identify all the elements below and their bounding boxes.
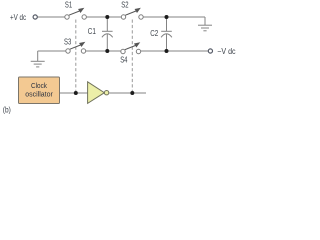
svg-text:+V dc: +V dc (10, 14, 27, 22)
svg-text:S4: S4 (120, 57, 127, 65)
svg-text:−V dc: −V dc (217, 46, 236, 55)
svg-text:C2: C2 (150, 30, 158, 38)
svg-text:S1: S1 (65, 2, 72, 10)
svg-text:oscillator: oscillator (25, 89, 53, 98)
svg-text:(b): (b) (3, 105, 11, 115)
svg-text:S3: S3 (64, 39, 71, 47)
svg-text:S2: S2 (121, 2, 128, 10)
svg-text:C1: C1 (88, 27, 96, 36)
